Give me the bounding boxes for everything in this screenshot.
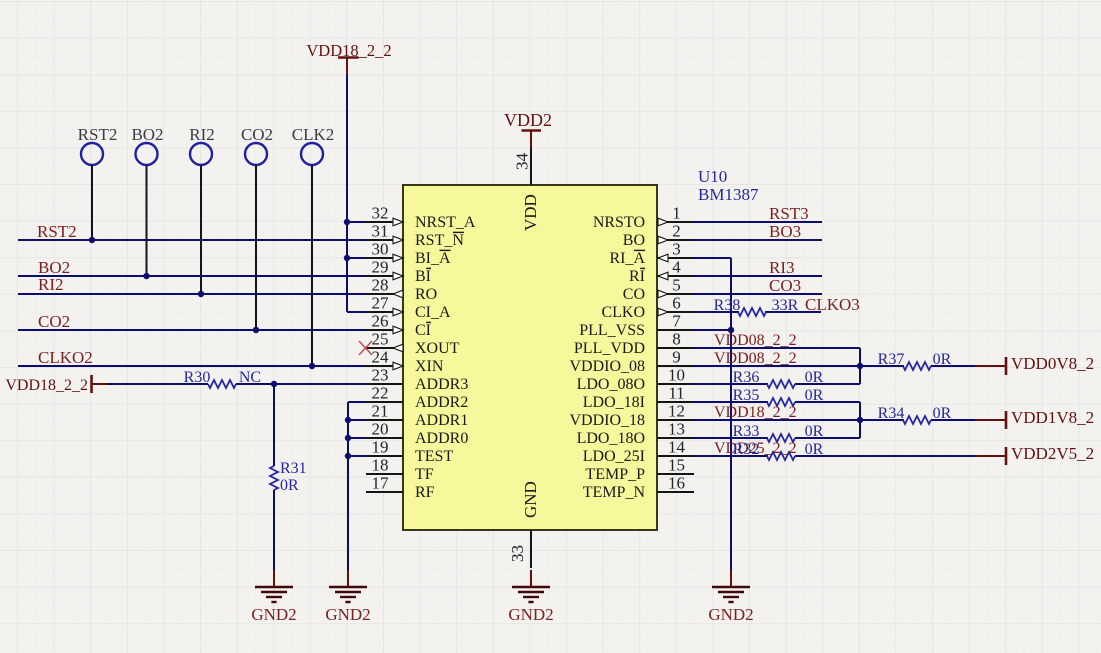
pin 19 TEST (left) [366, 438, 453, 466]
svg-text:NRST_A: NRST_A [415, 214, 476, 231]
svg-text:CLKO2: CLKO2 [38, 348, 93, 367]
svg-text:XIN: XIN [415, 358, 444, 375]
svg-text:VDD18_2_2: VDD18_2_2 [714, 404, 797, 421]
svg-text:LDO_25I: LDO_25I [583, 448, 645, 465]
svg-text:CI_A: CI_A [415, 304, 451, 321]
value 0R (R37) [933, 351, 952, 368]
svg-text:ADDR1: ADDR1 [415, 412, 468, 429]
svg-text:31: 31 [372, 222, 389, 241]
svg-text:VDD2: VDD2 [504, 110, 552, 130]
pin 7 PLL_VSS (right) [579, 312, 694, 340]
svg-text:RI3: RI3 [769, 258, 795, 277]
svg-text:13: 13 [668, 420, 685, 439]
wire branch BI_A [347, 257, 366, 259]
svg-text:0R: 0R [805, 423, 824, 440]
pin 3 RI_A (right) [609, 240, 694, 268]
svg-text:PLL_VSS: PLL_VSS [579, 322, 645, 339]
ground GND2 (pin33) [508, 570, 553, 624]
svg-text:CO2: CO2 [241, 125, 273, 144]
svg-text:TEMP_P: TEMP_P [585, 466, 645, 483]
wire to VDD1V8_2 [931, 419, 1006, 421]
svg-text:R38: R38 [714, 297, 741, 314]
wire ADDR3 net [107, 383, 366, 385]
wire net RST2 [18, 239, 366, 241]
resistor R36 [733, 369, 795, 388]
value 0R (R35) [805, 387, 824, 404]
testpoint BO2 [131, 125, 163, 276]
IC U10 BM1387 body [403, 185, 657, 530]
wire CLKO [694, 311, 821, 313]
pin 26 CI (left) [366, 312, 431, 340]
pin 13 LDO_18O (right) [577, 420, 694, 448]
svg-text:RO: RO [415, 286, 437, 303]
net label VDD08_2_2 (pin8) [714, 332, 797, 349]
resistor R32 [733, 441, 795, 460]
svg-text:TEST: TEST [415, 448, 453, 465]
svg-text:GND2: GND2 [325, 605, 370, 624]
junction PLL_VSS [728, 327, 734, 333]
svg-text:26: 26 [372, 312, 389, 331]
svg-text:LDO_18O: LDO_18O [577, 430, 645, 447]
svg-text:CI: CI [415, 322, 431, 339]
wire net RI3 [694, 275, 822, 277]
pin 15 TEMP_P (right) [585, 456, 694, 484]
junction VDD18 bus [857, 417, 863, 423]
net label VDD18_2_2 (pin12) [714, 404, 797, 421]
wire VDD08 pin8 [694, 348, 860, 384]
svg-text:RST3: RST3 [769, 204, 809, 223]
wire net CO2 [18, 329, 366, 331]
svg-text:VDD08_2_2: VDD08_2_2 [714, 332, 797, 349]
svg-text:CO: CO [623, 286, 645, 303]
svg-text:PLL_VDD: PLL_VDD [574, 340, 645, 357]
svg-text:34: 34 [513, 153, 532, 171]
junction at CLK2 wire [309, 363, 315, 369]
ground GND2 (ADDR) [325, 570, 370, 624]
svg-text:CO3: CO3 [769, 276, 801, 295]
testpoint CLK2 [292, 125, 335, 366]
value 0R (R32) [805, 441, 824, 458]
svg-text:R32: R32 [733, 441, 760, 458]
svg-text:9: 9 [672, 348, 681, 367]
svg-text:R36: R36 [733, 369, 760, 386]
wire branch NRST_A [347, 221, 366, 223]
net label CLKO3 [805, 295, 860, 314]
net label RI2 [38, 275, 64, 294]
wire VDD18 pull-up vertical [347, 75, 366, 312]
svg-text:TEMP_N: TEMP_N [583, 484, 646, 501]
pin 9 VDDIO_08 (right) [569, 348, 694, 376]
svg-text:CLKO3: CLKO3 [805, 295, 860, 314]
svg-text:0R: 0R [805, 387, 824, 404]
svg-text:4: 4 [672, 258, 681, 277]
svg-text:GND: GND [521, 481, 540, 518]
svg-text:VDD0V8_2: VDD0V8_2 [1011, 354, 1094, 373]
svg-text:RST_N: RST_N [415, 232, 464, 249]
pin 2 BO (right) [623, 222, 694, 250]
pin 17 RF (left) [366, 474, 435, 502]
no-connect X at XOUT [359, 341, 372, 355]
svg-text:NC: NC [239, 369, 261, 386]
pin 30 BI_A (left) [366, 240, 451, 268]
svg-text:VDDIO_18: VDDIO_18 [569, 412, 645, 429]
svg-text:ADDR0: ADDR0 [415, 430, 468, 447]
junction BI_A [344, 255, 350, 261]
svg-text:RI_A: RI_A [609, 250, 645, 267]
junction at RI2 wire [198, 291, 204, 297]
wire net RI2 [18, 293, 366, 295]
net label VDD08_2_2 (pin9) [714, 350, 797, 367]
svg-text:0R: 0R [280, 477, 299, 494]
svg-text:21: 21 [372, 402, 389, 421]
testpoint RI2 [189, 125, 215, 294]
value 0R (R36) [805, 369, 824, 386]
svg-text:GND2: GND2 [508, 605, 553, 624]
junction VDD08 bus [857, 363, 863, 369]
svg-text:BO2: BO2 [131, 125, 163, 144]
pin 31 RST_N (left) [366, 222, 464, 250]
svg-text:15: 15 [668, 456, 685, 475]
svg-text:16: 16 [668, 474, 685, 493]
svg-text:23: 23 [372, 366, 389, 385]
wire net CO3 [694, 293, 822, 295]
net label RST3 [769, 204, 809, 223]
svg-text:3: 3 [672, 240, 681, 259]
junction NRST_A [344, 219, 350, 225]
svg-text:R33: R33 [733, 423, 760, 440]
svg-text:17: 17 [372, 474, 390, 493]
pin 6 CLKO (right) [601, 294, 694, 322]
value 0R (R33) [805, 423, 824, 440]
pin 28 RO (left) [366, 276, 437, 304]
svg-text:RI2: RI2 [38, 275, 64, 294]
svg-text:24: 24 [372, 348, 390, 367]
svg-text:NRSTO: NRSTO [593, 214, 645, 231]
svg-text:ADDR3: ADDR3 [415, 376, 468, 393]
svg-text:18: 18 [372, 456, 389, 475]
svg-text:RST2: RST2 [78, 125, 118, 144]
wire to VDD0V8_2 [931, 365, 1006, 367]
wire R31 bottom [273, 490, 275, 572]
pin 21 ADDR1 (left) [366, 402, 468, 430]
svg-text:28: 28 [372, 276, 389, 295]
power port VDD1V8_2 [1006, 408, 1094, 429]
pin 18 TF (left) [366, 456, 434, 484]
pin 1 NRSTO (right) [593, 204, 694, 232]
net label CO2 [38, 312, 70, 331]
net label CLKO2 [38, 348, 93, 367]
svg-text:BO3: BO3 [769, 222, 801, 241]
svg-text:VDD08_2_2: VDD08_2_2 [714, 350, 797, 367]
svg-text:RST2: RST2 [37, 222, 77, 241]
power port VDD2 [504, 110, 552, 148]
svg-text:11: 11 [668, 384, 684, 403]
junction at BO2 wire [143, 273, 149, 279]
svg-text:5: 5 [672, 276, 681, 295]
svg-text:33R: 33R [772, 297, 799, 314]
svg-text:7: 7 [672, 312, 681, 331]
svg-text:U10: U10 [698, 167, 727, 186]
power port VDD0V8_2 [1006, 354, 1094, 375]
resistor R37 [878, 351, 931, 370]
net label CO3 [769, 276, 801, 295]
svg-text:BI_A: BI_A [415, 250, 451, 267]
svg-text:BO: BO [623, 232, 645, 249]
pin 22 ADDR2 (left) [366, 384, 468, 412]
resistor R38 [714, 297, 766, 316]
svg-text:GND2: GND2 [708, 605, 753, 624]
pin 23 ADDR3 (left) [366, 366, 468, 394]
pin 34 VDD (top) [513, 147, 541, 231]
wire LDO_18O pin13 [694, 437, 860, 439]
net label RI3 [769, 258, 795, 277]
pin 4 RI (right) [629, 258, 694, 286]
power port VDD2V5_2 [1006, 444, 1094, 465]
pin 14 LDO_25I (right) [583, 438, 694, 466]
svg-text:0R: 0R [805, 441, 824, 458]
junction ADDR1 [345, 417, 351, 423]
pin 16 TEMP_N (right) [583, 474, 694, 502]
svg-text:2: 2 [672, 222, 681, 241]
junction R31/ADDR3 [271, 381, 277, 387]
svg-text:CO2: CO2 [38, 312, 70, 331]
svg-text:TF: TF [415, 466, 434, 483]
svg-text:20: 20 [372, 420, 389, 439]
wire net BO2 [18, 275, 366, 277]
svg-text:19: 19 [372, 438, 389, 457]
power port VDD18_2_2 (left) [5, 375, 108, 394]
svg-text:29: 29 [372, 258, 389, 277]
wire net CLKO2 [18, 365, 366, 367]
wire ADDR2/ADDR1/ADDR0/TEST to ground [348, 402, 366, 572]
svg-text:8: 8 [672, 330, 681, 349]
net label RST2 [37, 222, 77, 241]
svg-text:0R: 0R [805, 369, 824, 386]
wire LDO_18I pin11 [694, 402, 860, 438]
svg-text:CLK2: CLK2 [292, 125, 335, 144]
junction ADDR0 [345, 435, 351, 441]
svg-text:R34: R34 [878, 405, 905, 422]
svg-text:CLKO: CLKO [601, 304, 645, 321]
svg-text:VDD18_2_2: VDD18_2_2 [5, 377, 88, 394]
pin 11 LDO_18I (right) [583, 384, 694, 412]
svg-text:GND2: GND2 [251, 605, 296, 624]
wire LDO_25I pin14 [694, 455, 1006, 457]
resistor R34 [878, 405, 931, 424]
svg-text:VDD1V8_2: VDD1V8_2 [1011, 408, 1094, 427]
net label BO3 [769, 222, 801, 241]
pin 33 GND (bottom) [508, 481, 540, 568]
svg-text:14: 14 [668, 438, 686, 457]
comment BM1387 [698, 185, 759, 204]
resistor R31 [270, 460, 307, 494]
svg-text:32: 32 [372, 204, 389, 223]
svg-text:LDO_18I: LDO_18I [583, 394, 645, 411]
svg-text:XOUT: XOUT [415, 340, 460, 357]
svg-text:VDD: VDD [521, 194, 540, 231]
junction at CO2 wire [253, 327, 259, 333]
pin 27 CI_A (left) [366, 294, 451, 322]
svg-text:BI: BI [415, 268, 431, 285]
net label BO2 [38, 258, 70, 277]
wire net BO3 [694, 239, 822, 241]
resistor R35 [733, 387, 795, 406]
svg-text:33: 33 [508, 545, 527, 562]
pin 8 PLL_VDD (right) [574, 330, 694, 358]
resistor R30 [184, 369, 236, 388]
resistor R33 [733, 423, 795, 442]
svg-text:25: 25 [372, 330, 389, 349]
svg-text:10: 10 [668, 366, 685, 385]
wire R31 top [273, 384, 275, 466]
wire net RST3 [694, 221, 822, 223]
ground GND2 (RI_A) [708, 570, 753, 624]
pin 24 XIN (left) [366, 348, 444, 376]
net label VDD25_2_2 (pin14) [714, 440, 797, 457]
svg-text:22: 22 [372, 384, 389, 403]
pin 25 XOUT (left) [366, 330, 460, 358]
value 33R (R38) [772, 297, 799, 314]
pin 5 CO (right) [623, 276, 694, 304]
value 0R (R34) [933, 405, 952, 422]
pin 20 ADDR0 (left) [366, 420, 468, 448]
pin 10 LDO_08O (right) [577, 366, 694, 394]
wire RI_A / PLL_VSS to ground [694, 258, 731, 572]
svg-text:12: 12 [668, 402, 685, 421]
pin 32 NRST_A (left) [366, 204, 476, 232]
svg-text:RF: RF [415, 484, 435, 501]
pin 12 VDDIO_18 (right) [569, 402, 694, 430]
ground GND2 (R31) [251, 570, 296, 624]
wire VDDIO_18 pin12 [694, 419, 904, 421]
svg-text:VDD2V5_2: VDD2V5_2 [1011, 444, 1094, 463]
pin 29 BI (left) [366, 258, 431, 286]
svg-text:R35: R35 [733, 387, 760, 404]
wire LDO_08O pin10 [694, 383, 860, 385]
svg-text:R31: R31 [280, 460, 307, 477]
designator U10 [698, 167, 727, 186]
svg-text:RI2: RI2 [189, 125, 215, 144]
svg-text:RI: RI [629, 268, 645, 285]
svg-text:LDO_08O: LDO_08O [577, 376, 645, 393]
svg-text:R37: R37 [878, 351, 905, 368]
value NC (R30) [239, 369, 261, 386]
svg-text:R30: R30 [184, 369, 211, 386]
testpoint RST2 [78, 125, 118, 240]
junction at RST2 wire [89, 237, 95, 243]
svg-text:6: 6 [672, 294, 681, 313]
wire VDD08 pin9 [694, 365, 904, 367]
svg-text:27: 27 [372, 294, 390, 313]
power port VDD18_2_2 (top) [306, 41, 391, 76]
svg-text:30: 30 [372, 240, 389, 259]
svg-text:1: 1 [672, 204, 681, 223]
testpoint CO2 [241, 125, 273, 330]
svg-text:BM1387: BM1387 [698, 185, 759, 204]
svg-text:VDDIO_08: VDDIO_08 [569, 358, 645, 375]
junction TEST [345, 453, 351, 459]
svg-text:ADDR2: ADDR2 [415, 394, 468, 411]
